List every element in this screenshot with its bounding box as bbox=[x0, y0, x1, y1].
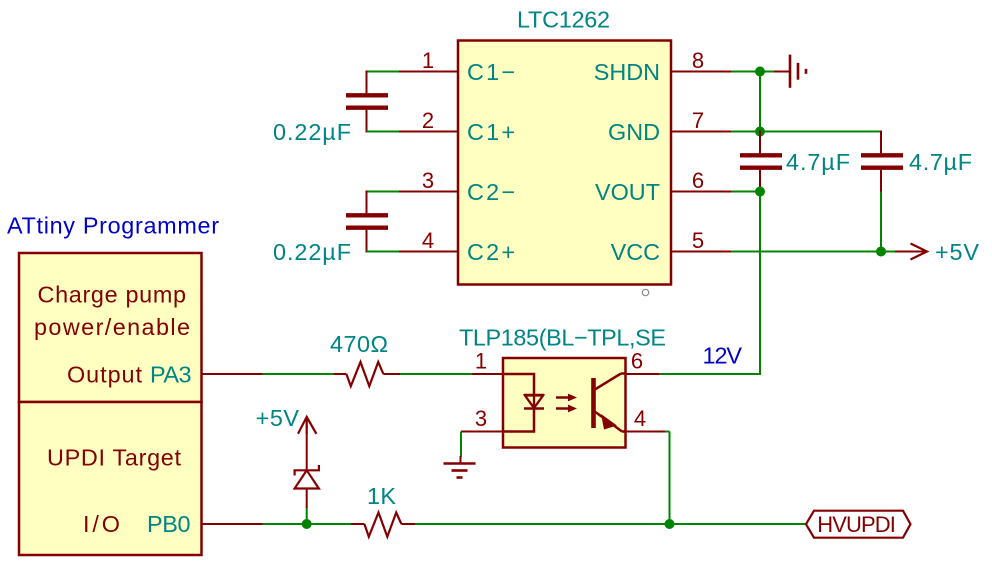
svg-text:ATtiny Programmer: ATtiny Programmer bbox=[7, 213, 219, 239]
opto pin 4 stub bbox=[626, 431, 666, 433]
sheet pin I/O bbox=[83, 511, 120, 537]
sheet pin name PA3 bbox=[150, 362, 192, 388]
svg-text:+5V: +5V bbox=[256, 405, 300, 431]
pin 6 name VOUT bbox=[595, 179, 660, 205]
power +5V (left, arrow up) bbox=[298, 417, 316, 434]
sheet label ATtiny Programmer bbox=[7, 213, 219, 239]
svg-text:4: 4 bbox=[634, 406, 646, 431]
label 12V bbox=[703, 342, 743, 368]
opto pin 3 stub bbox=[461, 431, 503, 433]
pin 1 C1- stub bbox=[399, 71, 458, 73]
svg-text:1: 1 bbox=[422, 48, 434, 73]
capacitor C4 value 4.7uF bbox=[909, 149, 972, 175]
wire pin5 VCC to +5V bbox=[731, 251, 895, 253]
opto pin 4 number bbox=[634, 406, 646, 431]
wire C2 to pin4 bbox=[367, 251, 400, 253]
power +5V (right, arrow right) bbox=[895, 244, 927, 260]
junction at pin8 node bbox=[755, 67, 765, 77]
svg-text:power/enable: power/enable bbox=[34, 314, 190, 340]
wire opto pin3 corner down bbox=[460, 432, 462, 458]
ground GND1 (rotated right) bbox=[774, 55, 806, 88]
svg-text:I/O: I/O bbox=[83, 511, 120, 537]
pin 7 GND stub bbox=[671, 131, 731, 133]
IC U1 LTC1262 body bbox=[458, 41, 671, 285]
svg-text:PB0: PB0 bbox=[147, 511, 191, 537]
svg-text:C1+: C1+ bbox=[467, 119, 515, 145]
zener diode D1 bbox=[295, 417, 319, 508]
wire PA3 to R1 bbox=[263, 373, 335, 375]
pin 5 number bbox=[692, 228, 704, 253]
pin 4 number bbox=[422, 228, 434, 253]
svg-text:UPDI Target: UPDI Target bbox=[47, 445, 182, 471]
svg-text:470Ω: 470Ω bbox=[330, 331, 388, 357]
resistor R2 value 1K bbox=[367, 483, 396, 509]
svg-text:GND: GND bbox=[608, 119, 660, 145]
pin 4 C2+ stub bbox=[399, 251, 458, 253]
pin 6 number bbox=[692, 168, 704, 193]
svg-text:6: 6 bbox=[631, 349, 643, 374]
svg-text:HVUPDI: HVUPDI bbox=[817, 512, 896, 537]
IC anchor circle bbox=[642, 289, 648, 295]
opto pin 1 stub bbox=[472, 373, 503, 375]
svg-text:PA3: PA3 bbox=[150, 362, 192, 388]
wire 12V corner to opto pin6 bbox=[659, 373, 761, 375]
junction at zener node bbox=[302, 519, 312, 529]
svg-text:LTC1262: LTC1262 bbox=[517, 7, 610, 33]
sheet pin Output bbox=[67, 362, 143, 388]
capacitor C2 0.22uF bbox=[346, 191, 388, 253]
svg-text:5: 5 bbox=[692, 228, 704, 253]
svg-text:C2+: C2+ bbox=[467, 239, 515, 265]
svg-text:Output: Output bbox=[67, 362, 143, 388]
svg-text:2: 2 bbox=[422, 108, 434, 133]
pin 7 number bbox=[692, 108, 704, 133]
wire C1 to pin2 bbox=[367, 131, 400, 133]
svg-text:Charge pump: Charge pump bbox=[38, 282, 187, 308]
ground GND2 below opto pin3 bbox=[444, 456, 476, 478]
svg-text:VCC: VCC bbox=[611, 239, 660, 265]
opto LED diode bbox=[503, 374, 544, 432]
svg-text:+5V: +5V bbox=[935, 239, 979, 265]
power +5V text (left) bbox=[256, 405, 300, 431]
pin 4 name C2+ bbox=[467, 239, 515, 265]
resistor R1 470R bbox=[334, 362, 400, 386]
junction at VCC +5V node bbox=[876, 247, 886, 257]
wire R2 to HVUPDI bbox=[415, 523, 806, 525]
svg-text:1: 1 bbox=[475, 349, 487, 374]
svg-text:C1−: C1− bbox=[467, 59, 515, 85]
junction at opto pin4 rail bbox=[665, 519, 675, 529]
capacitor C1 value 0.22uF bbox=[273, 119, 351, 145]
wire C4 bottom down to +5V rail bbox=[880, 192, 882, 252]
pin 2 number bbox=[422, 108, 434, 133]
wire pin6 to node bbox=[731, 191, 760, 193]
svg-text:3: 3 bbox=[422, 168, 434, 193]
pin 5 name VCC bbox=[611, 239, 660, 265]
wire pin6 node down to 12V corner bbox=[759, 192, 761, 375]
svg-text:4.7µF: 4.7µF bbox=[909, 149, 972, 175]
wire pin7 to C3 top node bbox=[731, 131, 881, 133]
resistor R1 value 470 ohm bbox=[330, 331, 388, 357]
capacitor C3 4.7uF bbox=[740, 131, 782, 193]
wire pin8 node down to pin7 node bbox=[759, 72, 761, 132]
pin 8 number bbox=[692, 48, 704, 73]
opto U2 TLP185 body bbox=[503, 358, 626, 448]
wire pin3 to C2 bbox=[367, 191, 400, 193]
pin 1 name C1- bbox=[467, 59, 515, 85]
capacitor C2 value 0.22uF bbox=[273, 239, 351, 265]
wire PB0 to R2 bbox=[263, 523, 352, 525]
sheet pin name PB0 bbox=[147, 511, 191, 537]
pin 1 number bbox=[422, 48, 434, 73]
svg-text:12V: 12V bbox=[703, 342, 743, 368]
svg-text:VOUT: VOUT bbox=[595, 179, 660, 205]
resistor R2 1K bbox=[351, 513, 415, 537]
svg-text:6: 6 bbox=[692, 168, 704, 193]
sheet pin PA3 stub bbox=[202, 373, 263, 375]
sheet box Charge pump power/enable bbox=[19, 253, 202, 402]
wire zener to rail bbox=[306, 507, 308, 524]
svg-text:4: 4 bbox=[422, 228, 434, 253]
pin 3 name C2- bbox=[467, 179, 515, 205]
sheet pin PB0 stub bbox=[202, 523, 263, 525]
opto U2 value TLP185(BL-TPL,SE bbox=[459, 325, 666, 351]
IC U1 value label LTC1262 bbox=[517, 7, 610, 33]
sheet text Charge pump bbox=[38, 282, 187, 308]
svg-text:0.22µF: 0.22µF bbox=[273, 119, 351, 145]
pin 7 name GND bbox=[608, 119, 660, 145]
wire pin8 to GND flag bbox=[731, 71, 774, 73]
pin 3 number bbox=[422, 168, 434, 193]
svg-text:C2−: C2− bbox=[467, 179, 515, 205]
svg-text:SHDN: SHDN bbox=[594, 59, 660, 85]
opto pin 3 number bbox=[475, 406, 487, 431]
pin 3 C2- stub bbox=[399, 191, 458, 193]
opto pin 6 stub bbox=[626, 373, 660, 375]
hierarchical label HVUPDI bbox=[806, 511, 911, 538]
pin 8 SHDN stub bbox=[671, 71, 731, 73]
opto light arrows bbox=[556, 394, 577, 413]
svg-text:4.7µF: 4.7µF bbox=[786, 149, 850, 175]
capacitor C3 value 4.7uF bbox=[786, 149, 850, 175]
pin 5 VCC stub bbox=[671, 251, 731, 253]
capacitor C4 4.7uF bbox=[861, 131, 903, 193]
junction at pin7 node bbox=[755, 127, 765, 137]
pin 2 name C1+ bbox=[467, 119, 515, 145]
wire opto pin4 to corner bbox=[665, 431, 670, 433]
wire R1 to opto pin1 bbox=[400, 373, 472, 375]
svg-text:8: 8 bbox=[692, 48, 704, 73]
capacitor C1 0.22uF bbox=[346, 71, 388, 133]
svg-text:0.22µF: 0.22µF bbox=[273, 239, 351, 265]
wire opto pin4 corner down to HVUPDI rail bbox=[669, 432, 671, 525]
opto pin 6 number bbox=[631, 349, 643, 374]
sheet box UPDI Target bbox=[19, 402, 202, 555]
svg-text:7: 7 bbox=[692, 108, 704, 133]
sheet text power/enable bbox=[34, 314, 190, 340]
pin 6 VOUT stub bbox=[671, 191, 731, 193]
svg-text:1K: 1K bbox=[367, 483, 396, 509]
svg-text:3: 3 bbox=[475, 406, 487, 431]
pin 8 name SHDN bbox=[594, 59, 660, 85]
wire pin1 to C1 bbox=[367, 71, 400, 73]
junction at pin6 node bbox=[755, 187, 765, 197]
svg-text:TLP185(BL−TPL,SE: TLP185(BL−TPL,SE bbox=[459, 325, 666, 351]
pin 2 C1+ stub bbox=[399, 131, 458, 133]
opto phototransistor Q bbox=[594, 374, 626, 432]
power +5V text (right) bbox=[935, 239, 979, 265]
opto pin 1 number bbox=[475, 349, 487, 374]
sheet text UPDI Target bbox=[47, 445, 182, 471]
